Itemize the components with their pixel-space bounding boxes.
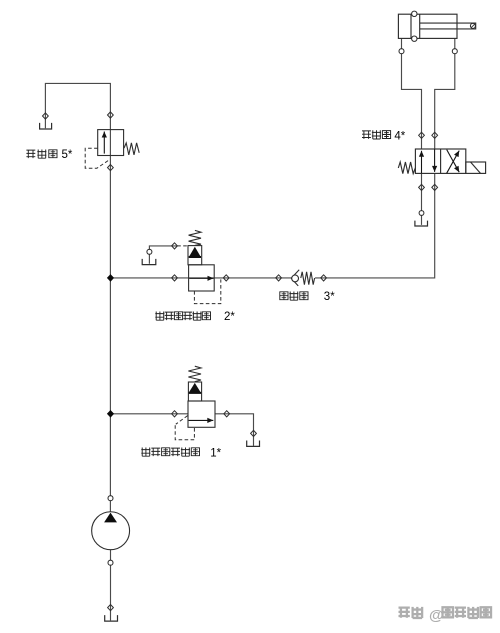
svg-text:1*: 1* xyxy=(210,447,221,459)
svg-text:5*: 5* xyxy=(62,149,73,161)
svg-text:2*: 2* xyxy=(224,311,235,323)
svg-text:4*: 4* xyxy=(394,130,405,142)
svg-text:3*: 3* xyxy=(324,291,335,303)
